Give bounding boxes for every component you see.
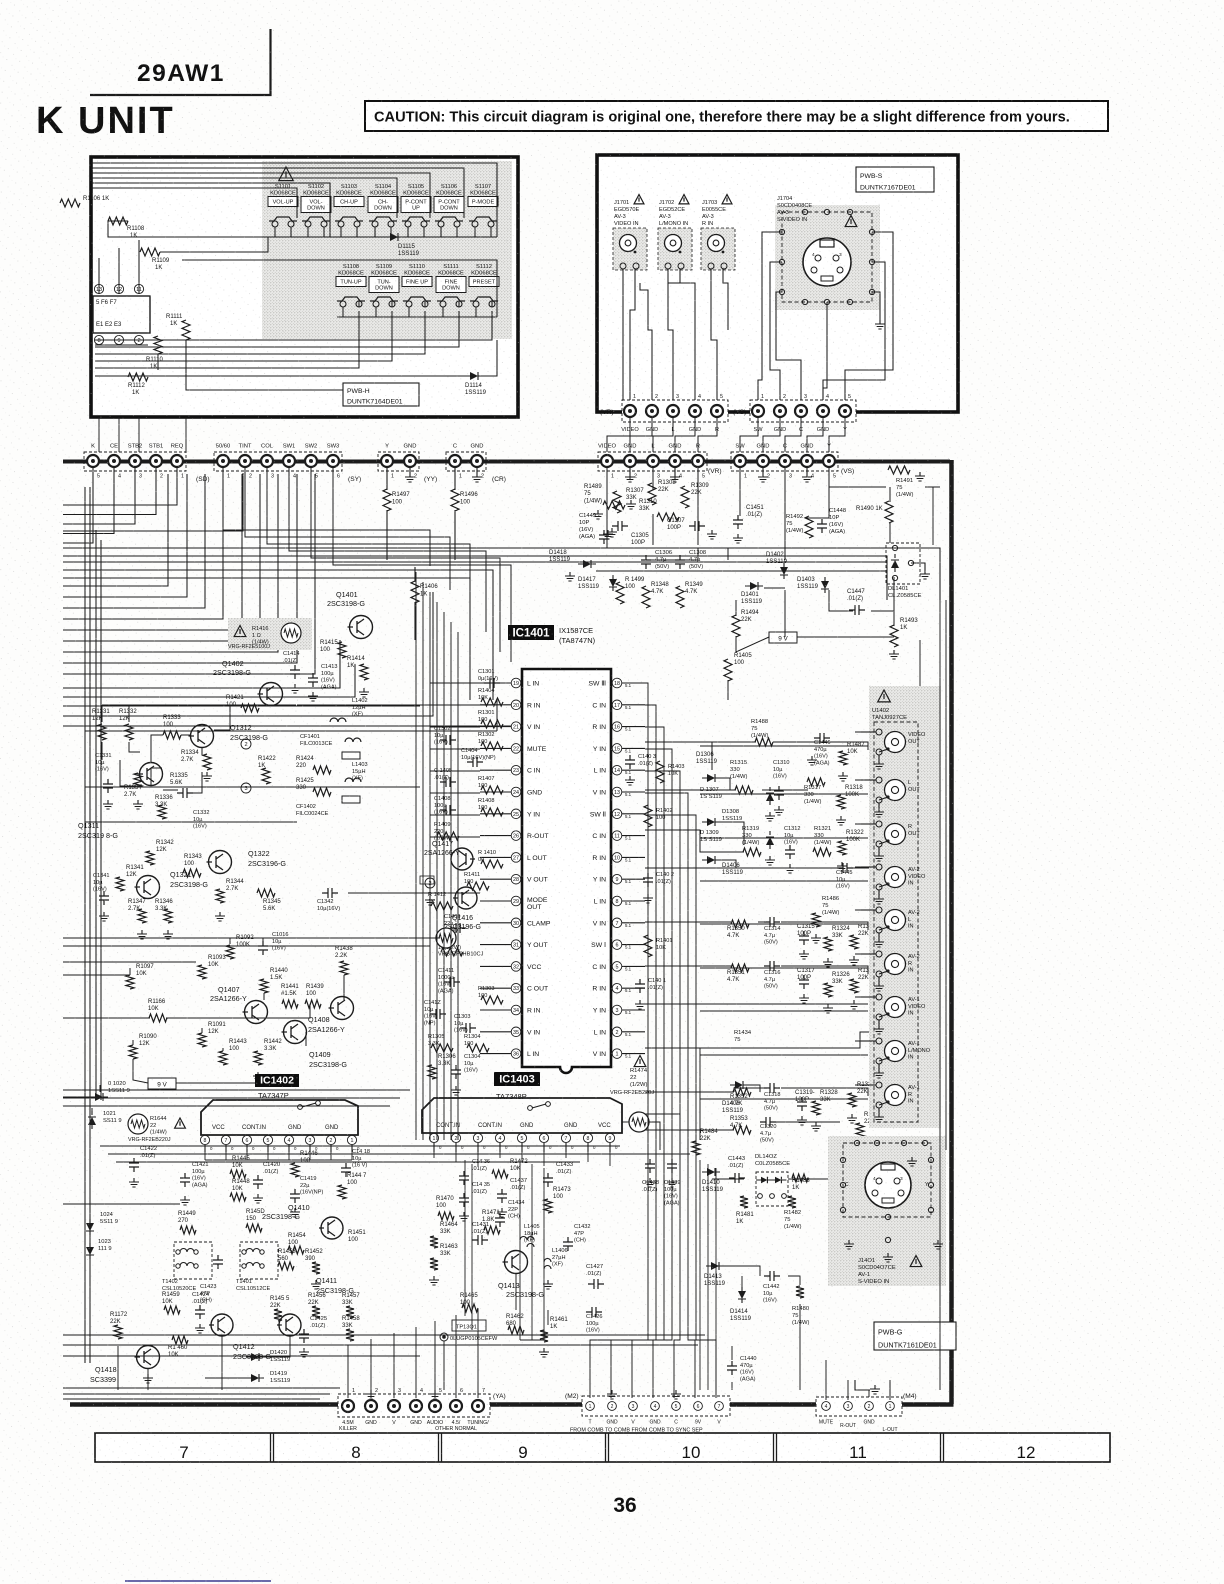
- bottom left bus feed wires: [63, 1387, 340, 1389]
- transistor Q1416 2SC3196-G: [455, 887, 477, 909]
- resistor R1496 100: [454, 467, 456, 490]
- ceramic filter T1401 CSL10512CE: [240, 1242, 278, 1279]
- resistor R1403: [656, 761, 664, 783]
- main schematic bottom bus line: [70, 1402, 954, 1407]
- resistor R1305: [431, 1044, 453, 1052]
- transistor Q1311 2SC3198-G: [140, 763, 163, 786]
- node X2 mark: [241, 739, 251, 749]
- PWB-S internal wires: [622, 269, 624, 400]
- PWB-H board name label: [343, 383, 419, 406]
- resistor R1110 1K: [154, 336, 162, 354]
- 9V box left: [148, 1078, 176, 1089]
- resistor R1304: [467, 1044, 489, 1052]
- resistor R1109 1K: [140, 248, 160, 256]
- left mesh: SD pin drop wires: [63, 467, 93, 543]
- main schematic top bus line: [63, 460, 950, 464]
- warning triangle PWB-H: [279, 167, 293, 181]
- op-amp U IC1401 body IX1587CE: [522, 669, 611, 1073]
- ceramic filter T1402 CSL10520CE: [174, 1242, 212, 1279]
- resistor R1303: [481, 996, 503, 1004]
- center vertical wire bundle from IC1401 right pins: [590, 683, 648, 1398]
- connector strip SD (K CE STB2 STB1 REQ): [84, 452, 186, 471]
- left mesh: staircase wires to SY pins: [63, 474, 168, 586]
- caution note box: [365, 101, 1108, 131]
- resistor R1106 1K: [60, 199, 80, 207]
- IC1402 and IC1403 pin drop wires: [204, 1152, 206, 1160]
- PWB-H stippled switch area: [262, 161, 512, 339]
- node X2 circled: [425, 878, 435, 888]
- diode D1419 1SS119: [251, 1374, 259, 1382]
- 9V supply label box: [769, 632, 797, 643]
- IC1403 pins 1-9: [429, 1133, 438, 1142]
- connector strip CR (C GND): [446, 452, 486, 471]
- resistor R1413: [441, 948, 463, 956]
- PWB-S board name label: [856, 167, 934, 192]
- resistor R1111 1K: [182, 320, 190, 340]
- left mesh: lower feed wires: [63, 640, 340, 688]
- wires PWB-S to main bus: [607, 417, 630, 452]
- RCA jack AV-2 R IN: [885, 954, 906, 975]
- capacitor C1301: [484, 678, 500, 688]
- capacitor C1401: [635, 979, 645, 993]
- header border rule: [90, 29, 271, 95]
- capacitor C1408: [440, 805, 456, 815]
- transistor Q1412 2SC3198-G: [211, 1314, 233, 1336]
- capacitor C1404: [467, 757, 483, 767]
- left cluster wires: [101, 705, 103, 722]
- node X3 mark: [241, 783, 251, 793]
- top-right cluster wires: [606, 467, 608, 548]
- photo coupler DL1401 CL20585CE: [886, 543, 920, 584]
- diode D1115 1SS119: [390, 233, 398, 241]
- RCA jack R OUT: [885, 824, 906, 845]
- RCA jack AV-2 L IN: [885, 910, 906, 931]
- IC1401 designator label: [508, 625, 554, 640]
- connector strip SY (50/60 TINT COL SW1 SW2 SW3): [214, 452, 342, 471]
- capacitor C1403: [625, 755, 635, 769]
- matrix to jack link wires: [855, 731, 876, 733]
- resistor R1406 1K: [411, 581, 419, 603]
- RCA jack AV-1 L/MONO IN: [885, 1041, 906, 1062]
- S-video AV-1 stippled area: [828, 1136, 946, 1286]
- test point TP1301 QLUGP0105CEFW: [452, 1320, 486, 1331]
- RCA jack J1701 AV-3 VIDEO IN: [613, 228, 647, 270]
- connector strip VS2 (SW GND C GND Y): [731, 452, 838, 471]
- diode D1420 1SS119: [251, 1353, 259, 1361]
- transistor Q1312 2SC3198-G: [191, 725, 214, 748]
- capacitor C1302: [440, 735, 456, 745]
- mid column verticals below IC1403: [519, 1160, 521, 1340]
- bottom blue mark: [125, 1580, 271, 1582]
- RCA jack J1703 AV-3 R IN: [701, 228, 735, 270]
- capacitor C1402: [643, 873, 653, 887]
- IC1402 designator label: [255, 1074, 299, 1087]
- op-amp U IC1402 body TA7347P: [201, 1100, 358, 1135]
- transistor Q1410 2SC3198-G: [321, 1217, 343, 1239]
- PWB-S board outline: [597, 155, 958, 412]
- RCA jack AV-1 VIDEO IN: [885, 997, 906, 1018]
- RCA jack J1702 AV-3 L/MONO IN: [658, 228, 692, 270]
- left mesh: SY deep drop wires into IC area: [223, 468, 430, 566]
- PWB-H board outline: [91, 157, 518, 417]
- resistor R1411: [467, 882, 489, 890]
- diode D1401 1SS119: [750, 582, 758, 590]
- transistor Q1410b small: [331, 997, 354, 1020]
- transistor Q1408 2SA1266-Y: [284, 1021, 307, 1044]
- diode D1114 1SS119: [470, 372, 478, 380]
- capacitor C1303: [460, 1023, 476, 1033]
- S-video jack J1401 S0CD0407CE AV-1 S-VIDEO IN: [865, 1162, 911, 1208]
- fusible resistor R1416 1 ohm: [228, 618, 312, 650]
- warning triangle U1402: [878, 690, 891, 702]
- right inner vertical feeders: [939, 548, 941, 1390]
- horizontal control rows to IC1402/IC1403: [100, 1145, 620, 1147]
- transistor Q1401 2SC3198-G: [350, 616, 373, 639]
- left-center vertical bundle to IC1402: [415, 572, 417, 1140]
- transistor Q1321 2SC3198-G: [137, 876, 160, 899]
- AV matrix wires: [645, 741, 756, 743]
- resistor R1112 1K: [128, 373, 148, 381]
- RCA jack L OUT: [885, 780, 906, 801]
- left mesh: long horizontal wires: [63, 473, 243, 531]
- transistor Q1417 2SA1266-Y: [451, 848, 473, 870]
- transistor Q1414 fusible R1474: [629, 1112, 649, 1132]
- main schematic right border: [949, 460, 954, 1404]
- resistor R1302: [481, 742, 503, 750]
- transistor Q1418 2SC3399: [137, 1346, 160, 1369]
- RCA jack AV-1 R IN: [885, 1085, 906, 1106]
- PWB-G board label: [874, 1322, 956, 1350]
- resistor R1408: [481, 808, 503, 816]
- stipple behind R1413: [420, 876, 434, 884]
- PWB-H wires to switch matrix: [91, 163, 497, 218]
- transistor Q1407 2SA1266-Y: [245, 1001, 268, 1024]
- connector strip VR2 (VIDEO GND L GND R): [598, 452, 707, 471]
- ceramic filter CF1402 FILC0024CE: [342, 796, 360, 803]
- resistor R1407: [481, 786, 503, 794]
- resistor R1410: [481, 860, 503, 868]
- bottom zone index table: [95, 1433, 1110, 1462]
- resistor R1497 100: [386, 467, 388, 490]
- transistor Q1413b small circle: [279, 1314, 301, 1336]
- capacitor C1405: [440, 777, 456, 787]
- connector strip YY (Y GND): [378, 452, 419, 471]
- resistor R1401: [644, 935, 652, 957]
- fusible resistor R1413 circle: [436, 928, 456, 948]
- IC1402 pins 8-1: [200, 1135, 209, 1144]
- keyboard encoder block pins E1-E3 F5-F7: [93, 296, 150, 333]
- op-amp U IC1403 body TA7348P: [422, 1098, 622, 1133]
- capacitor C1411: [444, 977, 460, 987]
- fusible resistor R1644 22: [128, 1114, 148, 1134]
- capacitor C1412: [430, 1009, 446, 1019]
- resistor R1404: [481, 698, 503, 706]
- resistor R1108 1K: [108, 217, 128, 225]
- resistor R1409: [437, 832, 459, 840]
- resistor R1412: [431, 902, 453, 910]
- transistor Q1402 2SC3198-G: [260, 683, 283, 706]
- transistor Q1322 2SC3196-G: [209, 851, 232, 874]
- resistor R1402: [644, 805, 652, 827]
- U1402 jack assembly stippled area: [869, 686, 941, 1128]
- capacitor C1409: [450, 923, 466, 933]
- S-video jack J1704 S0CD0408CE AV-3 S-VIDEO IN: [775, 205, 880, 310]
- RCA jack AV-2 VIDEO IN: [885, 867, 906, 888]
- resistor R1301: [481, 720, 503, 728]
- bottom area connection wires: [63, 1334, 705, 1336]
- RCA jack VIDEO OUT: [885, 732, 906, 753]
- transistor Q1413 2SC3198-G: [505, 1251, 528, 1274]
- IC1403 designator label: [494, 1072, 540, 1086]
- bundle from mesh to YA strip: [347, 1345, 349, 1398]
